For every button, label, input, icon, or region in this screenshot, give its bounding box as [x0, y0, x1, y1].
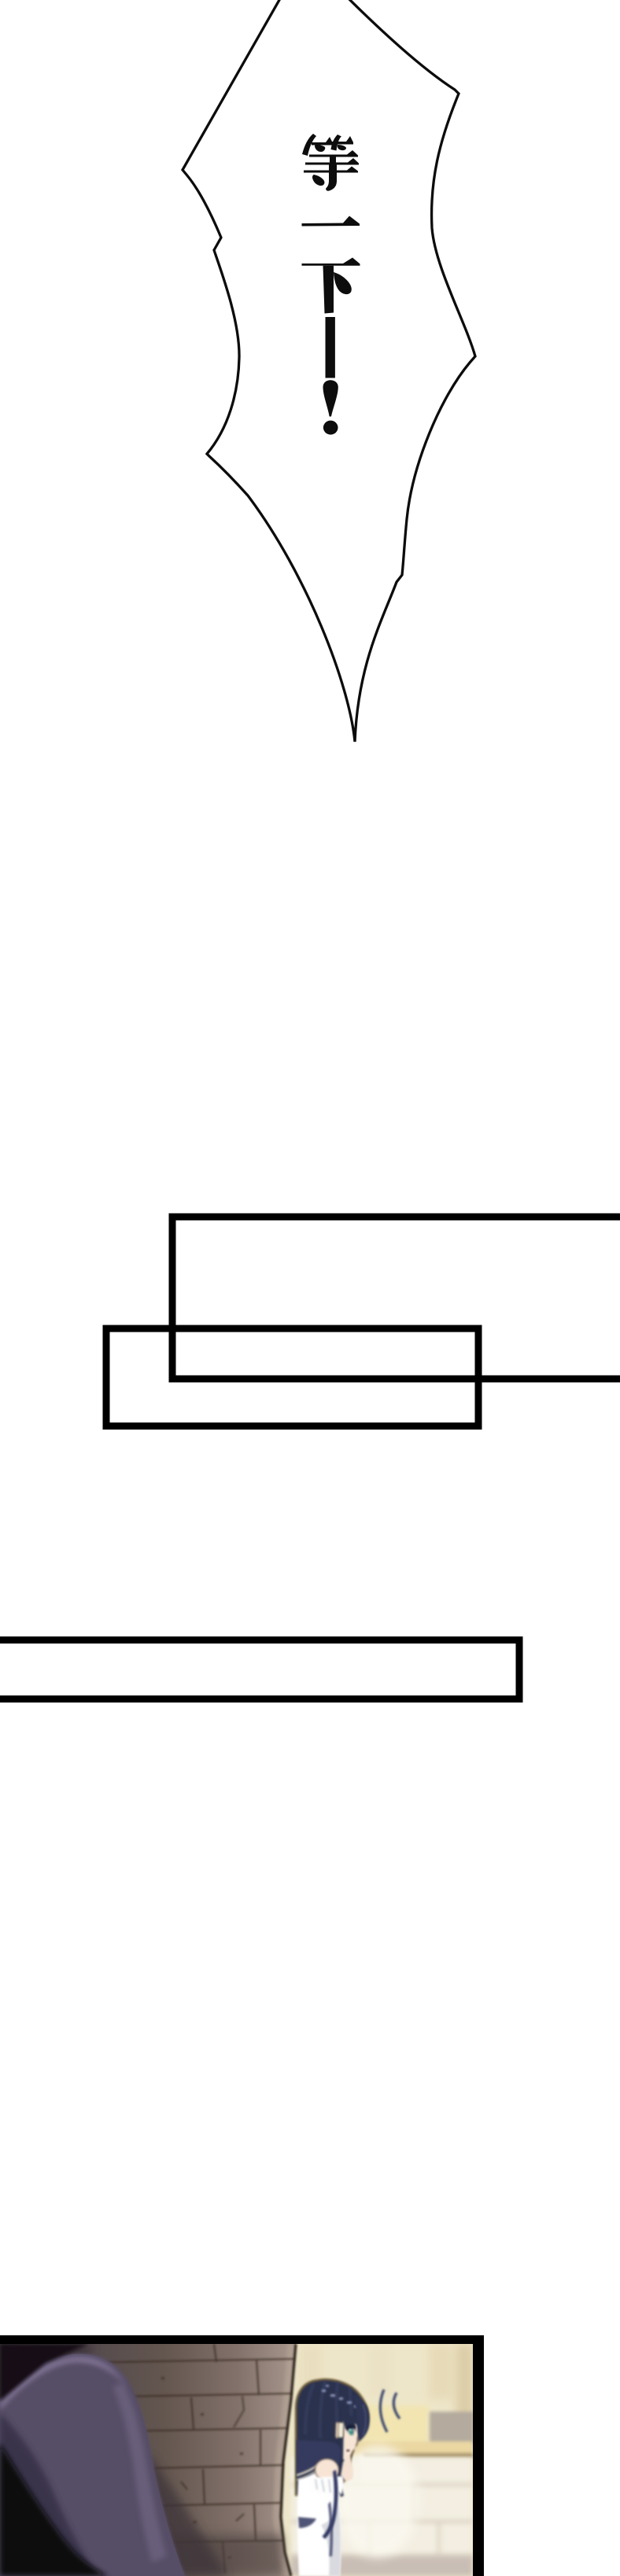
- girl: eye iris: [349, 2429, 353, 2435]
- girl: cape: [297, 2440, 341, 2480]
- girl: eye lash: [345, 2425, 356, 2430]
- girl: side bang: [353, 2395, 370, 2442]
- girl: cape trim: [297, 2464, 320, 2475]
- speech bubble: [183, 0, 475, 742]
- girl: neck skin: [341, 2456, 353, 2482]
- vertical text: 等: [302, 134, 359, 191]
- girl: face: [343, 2419, 359, 2466]
- rectangle frame A: [172, 1217, 620, 1379]
- girl: mouth: [346, 2449, 349, 2452]
- girl: shoulder ball: [316, 2459, 339, 2481]
- girl: ear: [335, 2423, 341, 2438]
- girl: long strand over dress: [323, 2470, 338, 2539]
- girl: bangs over face: [342, 2415, 358, 2436]
- bg grey block: [430, 2412, 474, 2444]
- white glow around girl: [337, 2445, 419, 2558]
- wall light rim near corner: [273, 2344, 296, 2576]
- brick wall: [0, 2344, 296, 2576]
- wall cracks and specks: [126, 2396, 244, 2521]
- motion lines: [380, 2390, 400, 2432]
- panel border top: [0, 2335, 484, 2344]
- purple cloaked figure: [0, 2344, 185, 2576]
- girl: back hair: [296, 2379, 368, 2496]
- girl: dress shading: [321, 2503, 341, 2576]
- girl: dress bump highlight: [308, 2500, 335, 2523]
- bg pale floor bricks: [291, 2457, 473, 2576]
- vertical text: long dash: [326, 317, 335, 378]
- bg bright yellow patch: [349, 2405, 429, 2453]
- wall corner edge line: [281, 2344, 296, 2576]
- girl: hair sparkles: [322, 2385, 358, 2408]
- girl: profile line: [351, 2437, 358, 2457]
- vertical text: 下: [302, 258, 360, 314]
- vertical text: 一: [302, 216, 360, 227]
- wall mortar lines: [67, 2344, 294, 2573]
- bg amber shelf band: [352, 2441, 473, 2458]
- girl: hair tie: [338, 2423, 344, 2438]
- rectangle frame B: [106, 1329, 478, 1426]
- girl: dress: [297, 2470, 341, 2576]
- panel border right: [473, 2335, 484, 2576]
- girl: front hair strand: [334, 2437, 344, 2497]
- bottom panel: [0, 2344, 474, 2576]
- wall left dark shading: [0, 2344, 94, 2576]
- long bar: [0, 1640, 519, 1699]
- girl: sleeve frill: [310, 2476, 344, 2500]
- girl: dress navy hem wedge: [298, 2517, 316, 2528]
- panel background right: [236, 2344, 473, 2576]
- wall bottom dark blur: [0, 2534, 283, 2576]
- bg vertical stripes top: [299, 2344, 473, 2434]
- vertical text: exclamation mark: [323, 380, 338, 434]
- girl: hair sheen strands: [305, 2381, 352, 2438]
